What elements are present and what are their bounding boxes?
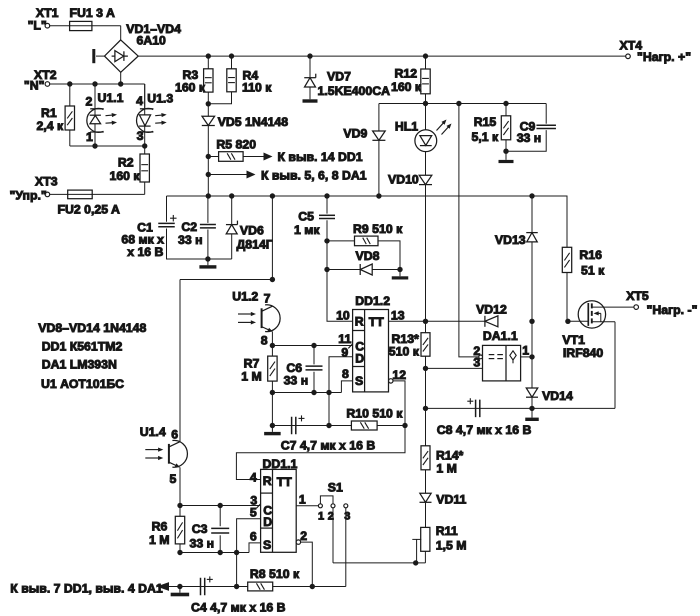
svg-text:FU2 0,25 A: FU2 0,25 A [58, 203, 121, 217]
svg-text:6: 6 [171, 428, 178, 442]
svg-text:"Упр.": "Упр." [10, 188, 47, 202]
svg-text:S1: S1 [328, 480, 343, 494]
svg-text:1: 1 [522, 343, 529, 357]
svg-text:11: 11 [338, 332, 351, 346]
svg-text:5: 5 [170, 472, 177, 486]
svg-text:1 М: 1 М [436, 461, 457, 475]
svg-text:2,4 к: 2,4 к [37, 119, 65, 133]
svg-text:2: 2 [300, 529, 307, 543]
svg-text:S: S [355, 374, 363, 388]
svg-text:D: D [263, 515, 272, 529]
svg-text:DD1.2: DD1.2 [355, 294, 390, 308]
svg-text:7: 7 [264, 292, 271, 306]
svg-text:VT1: VT1 [562, 333, 585, 347]
svg-text:C3: C3 [192, 522, 208, 536]
svg-text:51 к: 51 к [581, 264, 605, 278]
svg-text:Д814Г: Д814Г [237, 238, 273, 252]
svg-text:R5 820: R5 820 [216, 137, 256, 151]
svg-text:R: R [355, 314, 364, 328]
svg-text:х 16 В: х 16 В [127, 245, 163, 259]
svg-text:C7 4,7 мк х 16 В: C7 4,7 мк х 16 В [281, 438, 376, 452]
svg-text:"L": "L" [28, 19, 47, 33]
svg-text:1: 1 [86, 130, 93, 144]
svg-text:"N": "N" [24, 79, 45, 93]
svg-text:R9 510 к: R9 510 к [353, 222, 403, 236]
svg-text:C8 4,7 мк х 16 В: C8 4,7 мк х 16 В [437, 423, 532, 437]
svg-text:8: 8 [261, 334, 268, 348]
svg-text:HL1: HL1 [395, 119, 418, 133]
svg-text:R14*: R14* [436, 448, 464, 462]
svg-text:S: S [263, 538, 271, 552]
svg-text:33 н: 33 н [190, 536, 215, 550]
svg-text:DD1.1: DD1.1 [263, 457, 298, 471]
svg-text:R16: R16 [579, 248, 602, 262]
svg-text:R15: R15 [474, 115, 497, 129]
svg-text:DA1 LM393N: DA1 LM393N [42, 358, 117, 372]
svg-text:TT: TT [369, 315, 385, 329]
svg-text:12: 12 [392, 368, 406, 382]
svg-text:К выв. 5, 6, 8 DA1: К выв. 5, 6, 8 DA1 [261, 168, 367, 182]
svg-text:R6: R6 [152, 519, 168, 533]
svg-text:VD13: VD13 [495, 233, 526, 247]
svg-text:R12: R12 [395, 67, 418, 81]
svg-text:DA1.1: DA1.1 [483, 329, 518, 343]
svg-text:R10 510 к: R10 510 к [346, 406, 403, 420]
svg-text:160 к: 160 к [110, 169, 141, 183]
svg-text:3: 3 [344, 511, 350, 523]
svg-text:160 к: 160 к [391, 80, 422, 94]
svg-text:R8 510 к: R8 510 к [250, 567, 300, 581]
svg-text:XT3: XT3 [35, 175, 58, 189]
svg-text:10: 10 [336, 308, 350, 322]
svg-text:R2: R2 [118, 156, 134, 170]
svg-text:К выв. 14 DD1: К выв. 14 DD1 [278, 150, 363, 164]
svg-text:VD8: VD8 [356, 249, 380, 263]
svg-text:VD14: VD14 [542, 389, 573, 403]
svg-text:1: 1 [299, 493, 306, 507]
svg-text:1 М: 1 М [149, 533, 170, 547]
svg-text:33 н: 33 н [178, 233, 203, 247]
svg-text:VD7: VD7 [327, 70, 351, 84]
svg-text:VD11: VD11 [436, 492, 466, 506]
svg-text:VD9: VD9 [343, 126, 367, 140]
svg-text:C4 4,7 мк х 16 В: C4 4,7 мк х 16 В [191, 601, 286, 615]
svg-text:8: 8 [342, 367, 349, 381]
svg-text:U1 АОТ101БС: U1 АОТ101БС [41, 377, 124, 391]
svg-text:9: 9 [341, 345, 348, 359]
svg-text:110 к: 110 к [242, 81, 272, 95]
svg-text:VD12: VD12 [476, 303, 507, 317]
svg-text:U1.3: U1.3 [147, 92, 173, 106]
svg-text:33 н: 33 н [517, 131, 542, 145]
svg-text:4: 4 [136, 94, 143, 108]
svg-text:VD5 1N4148: VD5 1N4148 [218, 115, 289, 129]
svg-text:"Нагр. -": "Нагр. -" [647, 303, 698, 317]
svg-text:U1.4: U1.4 [140, 425, 166, 439]
svg-text:VD6: VD6 [240, 224, 264, 238]
svg-text:R11: R11 [436, 524, 458, 538]
svg-text:5: 5 [250, 506, 257, 520]
svg-text:VD10: VD10 [388, 173, 419, 187]
svg-text:6A10: 6A10 [137, 33, 167, 47]
svg-text:U1.1: U1.1 [98, 91, 124, 105]
svg-text:TT: TT [277, 475, 293, 489]
svg-text:4: 4 [250, 471, 257, 485]
svg-text:1.5KE400CA: 1.5KE400CA [318, 84, 391, 98]
svg-text:2: 2 [328, 510, 334, 522]
svg-text:DD1 К561ТМ2: DD1 К561ТМ2 [42, 339, 123, 353]
svg-text:1,5 М: 1,5 М [436, 539, 467, 553]
svg-text:2: 2 [86, 95, 93, 109]
svg-text:VD8–VD14 1N4148: VD8–VD14 1N4148 [38, 321, 146, 335]
svg-text:3: 3 [473, 355, 480, 369]
svg-text:3: 3 [137, 129, 144, 143]
svg-text:1: 1 [318, 510, 324, 522]
svg-text:510 к: 510 к [389, 344, 420, 358]
svg-text:XT5: XT5 [626, 289, 649, 303]
svg-text:C5: C5 [298, 209, 314, 223]
svg-text:R: R [263, 474, 272, 488]
svg-text:D: D [355, 352, 364, 366]
svg-text:33 н: 33 н [284, 373, 309, 387]
svg-text:"Нагр. +": "Нагр. +" [637, 50, 691, 64]
svg-text:6: 6 [250, 530, 257, 544]
svg-text:13: 13 [391, 308, 405, 322]
svg-text:К выв. 7 DD1, выв. 4 DA1: К выв. 7 DD1, выв. 4 DA1 [10, 582, 163, 596]
svg-text:1 мк: 1 мк [294, 223, 320, 237]
svg-text:U1.2: U1.2 [232, 290, 258, 304]
svg-text:5,1 к: 5,1 к [472, 130, 500, 144]
svg-text:FU1 3 A: FU1 3 A [70, 6, 115, 20]
svg-text:1 М: 1 М [241, 369, 261, 383]
svg-text:160 к: 160 к [175, 81, 206, 95]
svg-text:IRF840: IRF840 [563, 346, 603, 360]
